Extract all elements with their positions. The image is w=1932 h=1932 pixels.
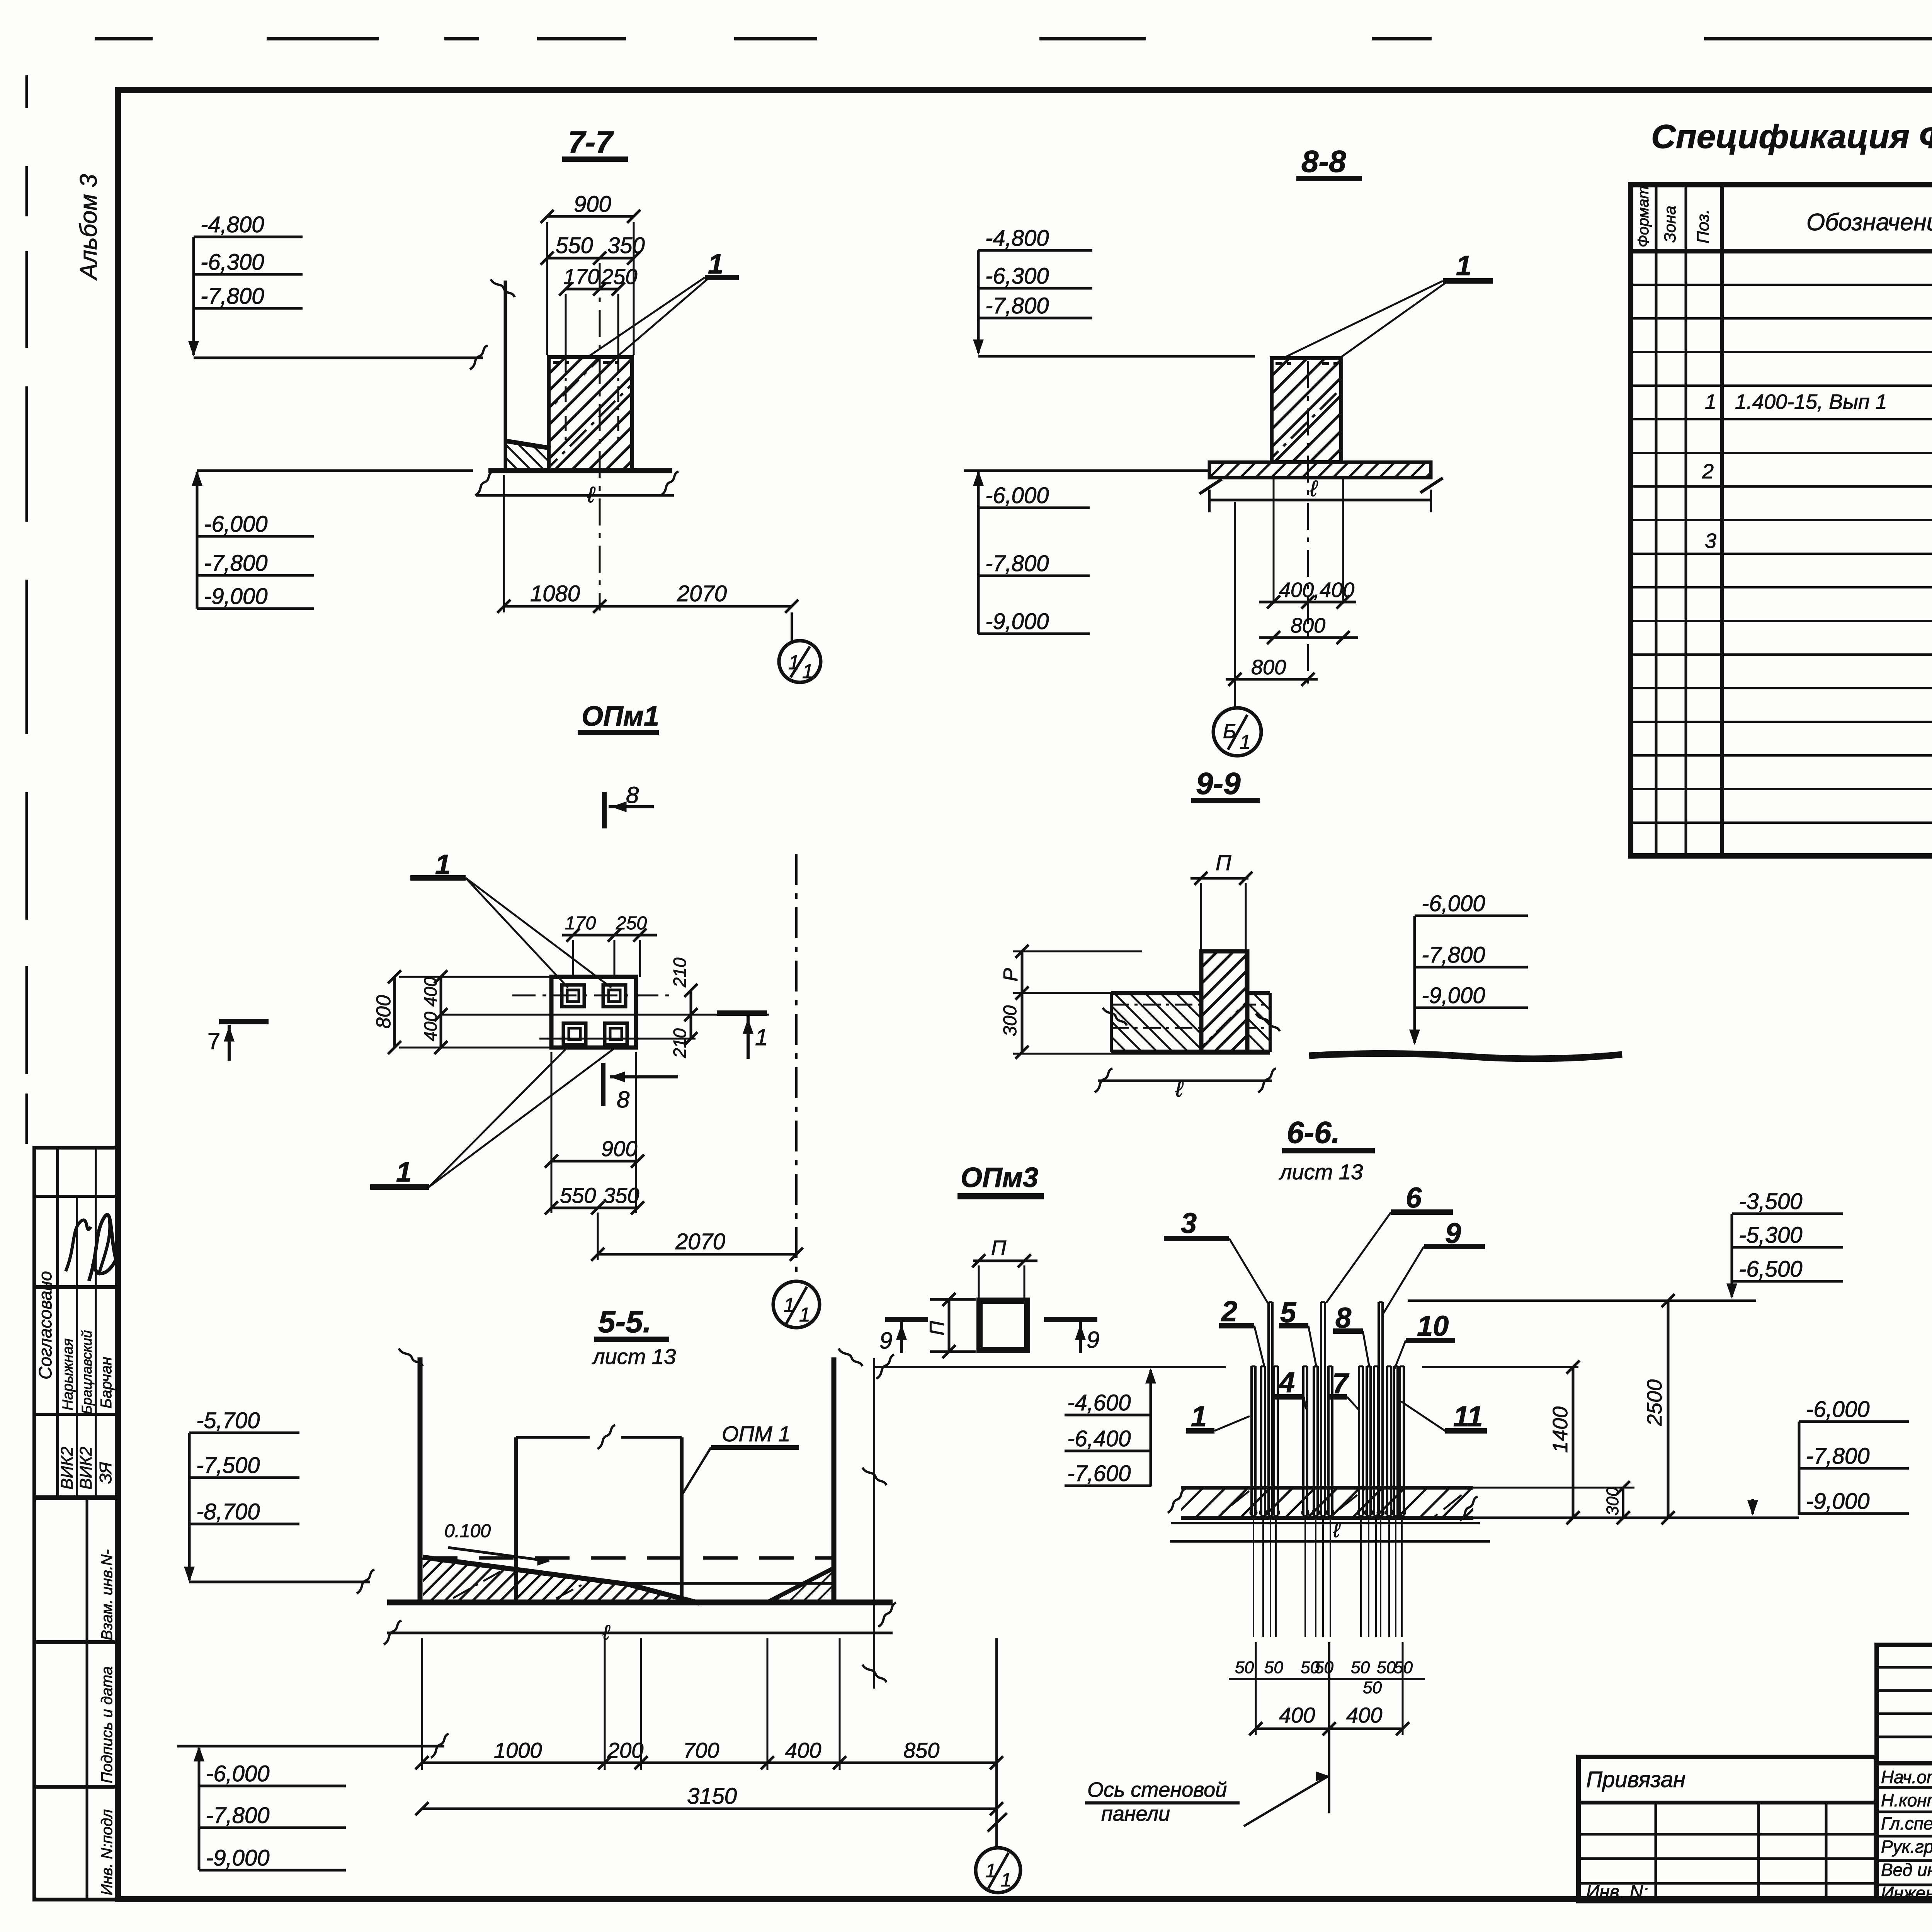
- svg-text:350: 350: [603, 1183, 639, 1207]
- svg-text:Нач.отд.: Нач.отд.: [1881, 1767, 1932, 1787]
- svg-text:-6,000: -6,000: [1422, 891, 1485, 916]
- svg-text:550: 550: [556, 233, 593, 258]
- svg-text:Спецификация ФОм1-ФОм3,ОПм1,ОП: Спецификация ФОм1-ФОм3,ОПм1,ОПм3,ОПм4: [1651, 118, 1932, 155]
- svg-text:-6,000: -6,000: [1806, 1397, 1869, 1422]
- svg-text:Вед инж: Вед инж: [1881, 1860, 1932, 1880]
- svg-text:-7,800: -7,800: [204, 551, 267, 576]
- svg-text:900: 900: [601, 1136, 637, 1161]
- svg-text:8: 8: [626, 782, 639, 808]
- svg-text:Р: Р: [1000, 968, 1022, 981]
- svg-text:400,400: 400,400: [1279, 578, 1354, 602]
- svg-text:ℓ: ℓ: [1333, 1519, 1341, 1542]
- svg-text:1: 1: [1240, 731, 1251, 753]
- svg-text:8-8: 8-8: [1301, 144, 1346, 179]
- svg-text:Б: Б: [1223, 720, 1236, 743]
- svg-text:-9,000: -9,000: [1422, 983, 1485, 1008]
- svg-text:2500: 2500: [1643, 1379, 1666, 1426]
- svg-text:1400: 1400: [1549, 1406, 1572, 1453]
- svg-text:Барчан: Барчан: [98, 1357, 115, 1408]
- svg-text:11: 11: [1453, 1400, 1483, 1432]
- svg-text:50: 50: [1264, 1658, 1283, 1677]
- svg-text:700: 700: [683, 1738, 719, 1762]
- svg-text:-7,800: -7,800: [1422, 942, 1485, 968]
- svg-text:2: 2: [1221, 1295, 1237, 1327]
- svg-text:400: 400: [785, 1738, 821, 1762]
- svg-text:1: 1: [1191, 1400, 1207, 1432]
- svg-text:800: 800: [1251, 656, 1286, 679]
- svg-text:1.400-15, Вып 1: 1.400-15, Вып 1: [1735, 390, 1887, 413]
- svg-text:400: 400: [420, 977, 440, 1007]
- svg-text:250: 250: [601, 264, 637, 289]
- svg-text:ℓ: ℓ: [587, 482, 595, 507]
- svg-text:Инв. N:подл: Инв. N:подл: [99, 1809, 116, 1895]
- svg-text:П: П: [926, 1321, 948, 1335]
- svg-text:П: П: [1216, 850, 1231, 875]
- svg-text:Поз.: Поз.: [1694, 209, 1713, 243]
- svg-text:1: 1: [784, 1294, 795, 1316]
- svg-text:ВИК2: ВИК2: [77, 1447, 95, 1490]
- svg-text:2: 2: [1702, 460, 1714, 483]
- svg-text:7: 7: [207, 1028, 220, 1054]
- svg-text:550: 550: [560, 1183, 596, 1207]
- svg-text:ℓ: ℓ: [1310, 476, 1318, 501]
- svg-text:Рук.груп.: Рук.груп.: [1881, 1837, 1932, 1857]
- svg-text:ЗЯ: ЗЯ: [96, 1462, 115, 1484]
- svg-text:панели: панели: [1101, 1802, 1170, 1825]
- svg-text:6: 6: [1406, 1182, 1422, 1214]
- svg-text:1: 1: [802, 660, 813, 683]
- svg-text:-6,000: -6,000: [204, 512, 267, 537]
- svg-text:8: 8: [617, 1087, 630, 1112]
- svg-text:10: 10: [1417, 1310, 1449, 1342]
- svg-text:1: 1: [1705, 390, 1716, 413]
- svg-text:-6,300: -6,300: [985, 264, 1049, 289]
- svg-text:Согласовано: Согласовано: [35, 1271, 55, 1379]
- svg-text:-5,300: -5,300: [1739, 1223, 1802, 1248]
- svg-text:1: 1: [788, 651, 799, 674]
- svg-text:Н.контр.: Н.контр.: [1881, 1790, 1932, 1810]
- svg-text:Нарыжная: Нарыжная: [60, 1338, 76, 1410]
- svg-text:-7,800: -7,800: [1806, 1444, 1869, 1469]
- svg-text:-4,800: -4,800: [201, 212, 264, 237]
- svg-text:-8,700: -8,700: [196, 1499, 260, 1524]
- svg-text:50: 50: [1377, 1658, 1396, 1677]
- svg-text:50: 50: [1363, 1678, 1382, 1697]
- svg-text:П: П: [991, 1236, 1007, 1260]
- svg-text:ℓ: ℓ: [602, 1621, 611, 1644]
- svg-text:-7,500: -7,500: [196, 1453, 260, 1478]
- svg-text:250: 250: [616, 913, 647, 934]
- svg-text:-9,000: -9,000: [1806, 1489, 1869, 1514]
- svg-text:-7,600: -7,600: [1067, 1461, 1131, 1486]
- svg-text:210: 210: [670, 957, 690, 988]
- svg-text:170: 170: [565, 913, 596, 934]
- svg-text:800: 800: [1291, 614, 1325, 637]
- svg-text:800: 800: [372, 995, 395, 1029]
- svg-text:-7,800: -7,800: [206, 1803, 269, 1828]
- svg-text:ОПм3: ОПм3: [961, 1162, 1038, 1193]
- svg-text:9: 9: [879, 1328, 892, 1354]
- svg-text:200: 200: [607, 1738, 643, 1762]
- svg-text:1: 1: [396, 1157, 412, 1188]
- svg-text:Формат: Формат: [1635, 186, 1652, 247]
- svg-text:-6,400: -6,400: [1067, 1426, 1131, 1451]
- svg-text:-4,800: -4,800: [985, 226, 1049, 251]
- svg-text:9: 9: [1087, 1327, 1099, 1353]
- svg-text:0.100: 0.100: [444, 1521, 491, 1541]
- svg-text:50: 50: [1315, 1658, 1333, 1677]
- svg-text:2070: 2070: [677, 581, 727, 606]
- svg-text:-4,600: -4,600: [1067, 1390, 1131, 1415]
- svg-text:ℓ: ℓ: [1175, 1077, 1184, 1102]
- svg-text:лист 13: лист 13: [592, 1344, 676, 1369]
- svg-text:3: 3: [1181, 1207, 1197, 1239]
- svg-text:2070: 2070: [675, 1229, 725, 1254]
- svg-text:9-9: 9-9: [1196, 766, 1241, 801]
- svg-text:ОПМ 1: ОПМ 1: [722, 1422, 791, 1446]
- svg-text:Гл.спец.: Гл.спец.: [1881, 1813, 1932, 1833]
- svg-text:-9,000: -9,000: [985, 609, 1049, 634]
- svg-text:Инв. N:: Инв. N:: [1586, 1882, 1648, 1902]
- svg-text:Зона: Зона: [1661, 206, 1679, 243]
- svg-text:-7,800: -7,800: [985, 293, 1049, 318]
- svg-text:-6,300: -6,300: [201, 250, 264, 275]
- svg-text:50: 50: [1351, 1658, 1370, 1677]
- svg-text:1: 1: [755, 1024, 768, 1050]
- svg-text:Брацлавский: Брацлавский: [79, 1330, 95, 1414]
- svg-text:Подпись и дата: Подпись и дата: [99, 1666, 116, 1783]
- svg-text:лист 13: лист 13: [1279, 1160, 1363, 1184]
- svg-text:-9,000: -9,000: [206, 1845, 269, 1871]
- svg-text:-9,000: -9,000: [204, 584, 267, 609]
- svg-text:1: 1: [799, 1304, 810, 1326]
- svg-text:-3,500: -3,500: [1739, 1189, 1802, 1214]
- svg-text:Привязан: Привязан: [1586, 1767, 1685, 1792]
- svg-text:1: 1: [1456, 250, 1471, 281]
- svg-text:Взам. инв.N-: Взам. инв.N-: [99, 1549, 116, 1640]
- svg-text:1: 1: [985, 1860, 996, 1881]
- svg-text:ОПм1: ОПм1: [582, 701, 659, 732]
- svg-text:350: 350: [607, 233, 645, 258]
- svg-text:1: 1: [1001, 1869, 1012, 1891]
- svg-text:7-7: 7-7: [568, 125, 614, 159]
- svg-text:-6,000: -6,000: [206, 1761, 269, 1786]
- svg-text:Ось стеновой: Ось стеновой: [1087, 1778, 1227, 1801]
- svg-text:400: 400: [1279, 1703, 1315, 1727]
- svg-text:400: 400: [1346, 1703, 1382, 1727]
- svg-text:400: 400: [420, 1012, 440, 1041]
- svg-text:900: 900: [574, 192, 611, 217]
- svg-text:50: 50: [1235, 1658, 1254, 1677]
- svg-text:170: 170: [563, 264, 599, 289]
- svg-text:850: 850: [903, 1738, 939, 1762]
- svg-text:300: 300: [1603, 1487, 1622, 1515]
- svg-text:210: 210: [670, 1028, 690, 1058]
- svg-text:-7,800: -7,800: [985, 551, 1049, 576]
- svg-text:5-5.: 5-5.: [598, 1304, 651, 1339]
- svg-text:Альбом 3: Альбом 3: [75, 174, 102, 281]
- svg-text:6-6.: 6-6.: [1287, 1115, 1340, 1150]
- svg-text:3: 3: [1705, 529, 1716, 553]
- svg-text:300: 300: [1000, 1005, 1020, 1036]
- svg-text:-6,000: -6,000: [985, 483, 1049, 508]
- svg-text:1000: 1000: [494, 1738, 542, 1762]
- svg-text:Обозначение: Обозначение: [1806, 209, 1932, 236]
- svg-text:Инжен: Инжен: [1881, 1883, 1932, 1903]
- svg-text:4: 4: [1278, 1366, 1295, 1398]
- svg-text:-6,500: -6,500: [1739, 1257, 1802, 1282]
- svg-text:-7,800: -7,800: [201, 284, 264, 309]
- svg-text:3150: 3150: [687, 1784, 737, 1809]
- svg-text:1080: 1080: [530, 581, 580, 606]
- svg-text:ВИК2: ВИК2: [58, 1447, 77, 1490]
- svg-text:-5,700: -5,700: [196, 1408, 260, 1433]
